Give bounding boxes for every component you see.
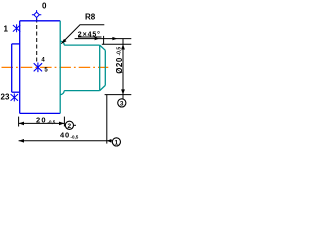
dim 20 bottom: extension lines — [19, 117, 65, 127]
svg-text:-0,5: -0,5 — [48, 120, 56, 125]
dim 40 bottom line — [19, 140, 113, 142]
leader arrow to fillet — [61, 25, 104, 44]
extension line right of length dim — [106, 95, 108, 144]
bottom fillet — [60, 91, 64, 95]
shaft right face — [104, 50, 106, 85]
dia20 bottom extension line — [105, 94, 132, 96]
dim 20 line — [19, 122, 65, 124]
svg-text:1: 1 — [4, 25, 9, 34]
balloon 1 — [112, 138, 120, 146]
center point marker 4/5 (asterisk) — [34, 63, 42, 73]
svg-text:0: 0 — [42, 2, 47, 11]
circuit-free mechanical sketch drawing — [0, 0, 132, 154]
orange horizontal centerline — [2, 66, 109, 68]
chamfer edge line — [99, 45, 101, 91]
bottom chamfer — [100, 85, 106, 90]
top chamfer — [100, 45, 106, 50]
dim 20 arrows — [19, 122, 24, 126]
top fillet — [60, 41, 64, 45]
dia20 bottom arrow — [121, 89, 125, 94]
dimension line A (top right horizontal) — [75, 36, 132, 45]
dia20 dimension line — [122, 39, 124, 99]
flange left face — [19, 21, 21, 114]
balloon 3 — [118, 99, 126, 107]
boss top cap — [12, 43, 20, 45]
flange right face — [59, 21, 61, 114]
dia20 top extension line — [102, 43, 132, 45]
point marker 23 (asterisk) — [11, 93, 18, 101]
flange outline (blue) — [12, 21, 61, 114]
svg-text:-0,5: -0,5 — [71, 135, 79, 140]
svg-text:23: 23 — [1, 93, 10, 102]
shaft bottom edge — [64, 90, 100, 92]
note underline — [78, 36, 102, 38]
boss bottom cap — [12, 91, 20, 93]
shaft top edge — [64, 44, 100, 46]
svg-text:R8: R8 — [85, 13, 96, 22]
svg-text:40: 40 — [60, 131, 70, 140]
svg-text:2: 2 — [68, 123, 72, 130]
svg-text:3: 3 — [120, 100, 124, 107]
svg-text:1: 1 — [115, 139, 119, 146]
black dashed vertical construction line — [36, 19, 38, 63]
flange bottom edge — [20, 112, 61, 114]
boss left face — [11, 44, 13, 92]
svg-text:20: 20 — [36, 115, 47, 124]
dia20 top arrow — [121, 44, 125, 49]
point marker 0 (diamond) — [32, 10, 41, 19]
svg-text:-0,5: -0,5 — [117, 47, 123, 56]
balloon 2 — [63, 124, 66, 126]
point marker 1 (asterisk) — [13, 24, 20, 32]
flange top edge — [20, 20, 61, 22]
dim 40 arrows — [19, 139, 24, 143]
shaft outline (teal) — [60, 21, 105, 114]
svg-text:Ø20: Ø20 — [115, 57, 124, 74]
